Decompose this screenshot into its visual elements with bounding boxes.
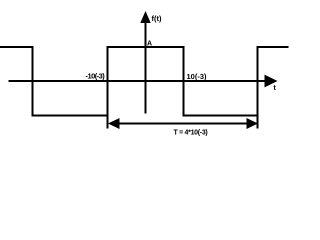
svg-text:-10(-3): -10(-3) [86, 72, 106, 81]
svg-text:f(t): f(t) [152, 14, 162, 23]
svg-text:10(-3): 10(-3) [187, 72, 208, 81]
svg-text:A: A [147, 41, 152, 48]
svg-text:T = 4*10(-3): T = 4*10(-3) [174, 130, 208, 137]
